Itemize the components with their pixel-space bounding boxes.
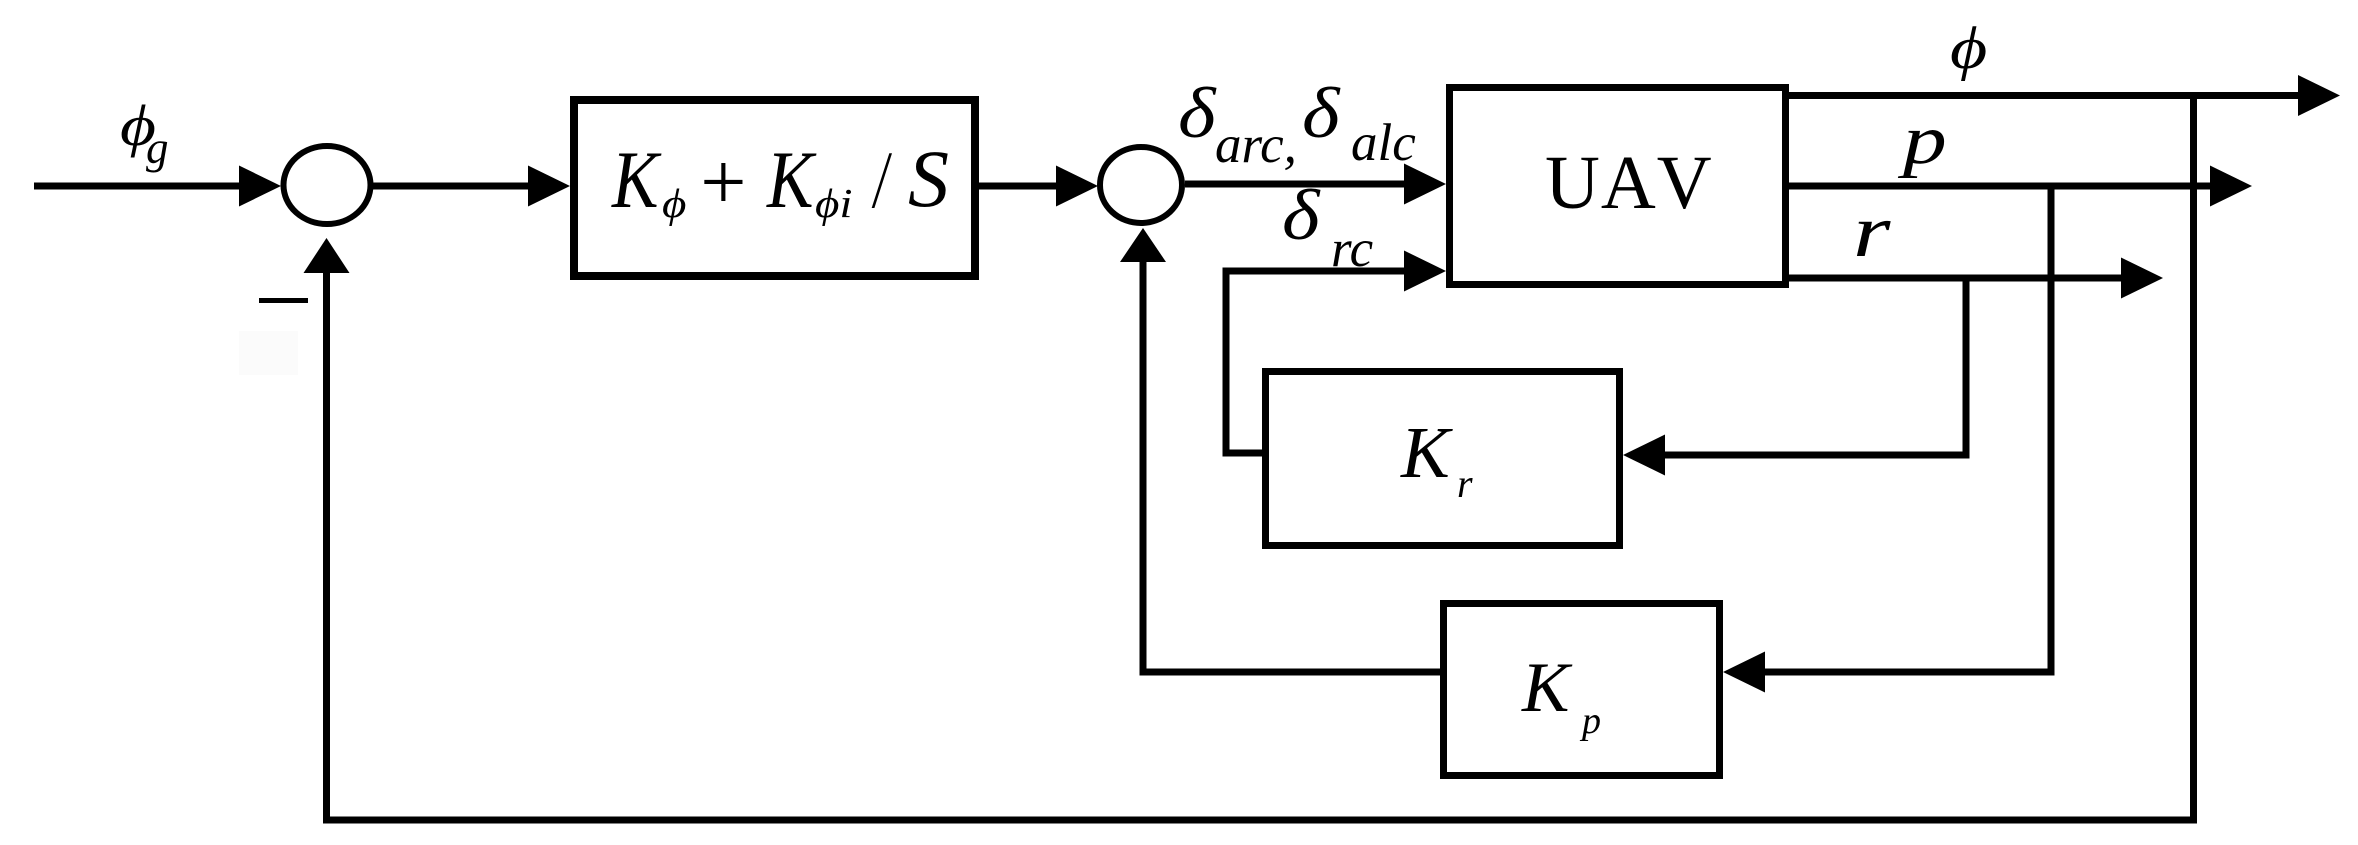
svg-text:ϕ: ϕ — [662, 181, 686, 226]
wire p tap vertical to K_p — [2048, 186, 2055, 676]
svg-text:alc: alc — [1351, 114, 1416, 172]
wire delta_rc vertical riser from K_r — [1223, 268, 1230, 454]
summing junction S2 — [1100, 147, 1182, 223]
block K_r — [1266, 372, 1620, 546]
block controller K_phi + K_phii / S — [574, 100, 975, 276]
arrowhead phi output — [2298, 75, 2340, 116]
svg-text:UAV: UAV — [1545, 141, 1713, 225]
wire delta_rc horizontal into UAV — [1226, 268, 1410, 275]
wire r tap vertical to K_r — [1963, 278, 1970, 459]
wire K_p output vertical riser to S2 — [1140, 262, 1147, 676]
svg-text:K: K — [1400, 412, 1453, 493]
svg-text:δ: δ — [1282, 175, 1321, 255]
svg-text:p: p — [1897, 101, 1946, 179]
svg-text:δ: δ — [1178, 73, 1217, 153]
arrowhead into summing junction S1 — [239, 166, 281, 207]
wire S2 to UAV — [1185, 181, 1410, 188]
arrowhead into S2 from below — [1120, 228, 1166, 262]
minus sign at S1 — [259, 298, 308, 303]
wire into K_r — [1662, 452, 1966, 459]
svg-text:K: K — [611, 135, 662, 226]
arrowhead into UAV (delta_arc) — [1404, 164, 1446, 205]
svg-text:+: + — [695, 136, 750, 227]
arrowhead into controller block — [528, 166, 570, 207]
svg-text:K: K — [1521, 649, 1573, 727]
wire K_p output horizontal — [1143, 669, 1440, 676]
wire input phi_g — [34, 183, 247, 190]
arrowhead p output — [2210, 166, 2252, 207]
svg-text:arc,: arc, — [1215, 116, 1297, 174]
svg-text:r: r — [1457, 461, 1473, 506]
wire feedback bottom — [327, 817, 2194, 824]
svg-text:ϕ: ϕ — [1950, 15, 1987, 81]
arrowhead r output — [2121, 258, 2163, 299]
svg-text:δ: δ — [1302, 73, 1341, 153]
wire phi output — [1789, 92, 2300, 99]
svg-text:p: p — [1579, 700, 1601, 742]
wire K_r output stub — [1223, 450, 1263, 457]
arrowhead into UAV (delta_rc) — [1404, 251, 1446, 292]
wire into K_p — [1762, 669, 2051, 676]
faint artifact box — [239, 331, 298, 375]
svg-text:g: g — [146, 123, 169, 173]
svg-text:S: S — [908, 133, 949, 224]
arrowhead into S2 — [1056, 166, 1098, 207]
svg-text:ϕi: ϕi — [815, 181, 853, 226]
arrowhead feedback into S1 — [304, 238, 350, 273]
wire S1 to controller block — [370, 183, 533, 190]
node phi_g input label — [120, 93, 169, 173]
arrowhead into K_r — [1623, 435, 1665, 476]
wire controller to summing junction S2 — [979, 183, 1062, 190]
block K_p — [1444, 604, 1720, 776]
block UAV — [1450, 88, 1786, 285]
wire phi feedback vertical — [2190, 96, 2197, 824]
svg-text:K: K — [766, 135, 817, 226]
wire feedback left vertical — [323, 272, 330, 824]
node delta_arc, delta_alc label — [1178, 73, 1416, 174]
node delta_rc label — [1282, 175, 1373, 278]
wire p output — [1789, 183, 2215, 190]
wire r output — [1789, 275, 2127, 282]
summing junction S1 — [284, 146, 371, 224]
arrowhead into K_p — [1723, 652, 1765, 693]
svg-text:r: r — [1853, 190, 1891, 272]
